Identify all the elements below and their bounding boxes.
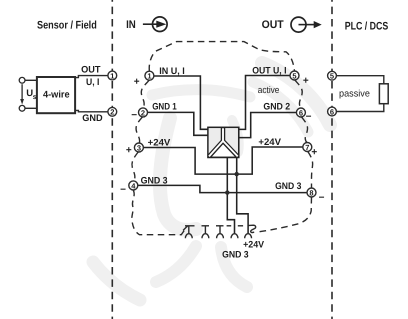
4-wire box [37,77,75,113]
connector 3 [217,226,224,238]
wire GND 2 [239,113,297,138]
terminal D5 [328,71,337,80]
svg-text:GND 3: GND 3 [141,176,168,187]
svg-text:6: 6 [299,108,303,117]
terminal C7 [303,143,312,152]
wire GND 1 [147,112,208,135]
terminal D6 [328,107,337,116]
svg-text:+24V: +24V [258,137,281,148]
svg-text:3: 3 [137,143,141,152]
svg-text:5: 5 [292,71,296,80]
Us arrow [21,84,23,100]
svg-text:GND 1: GND 1 [152,101,177,112]
outline seg 3-4 [132,152,138,181]
connector 2 [202,226,209,238]
terminal C8 [307,188,316,197]
watermark logo (light gray) [93,63,330,300]
svg-text:IN U, I: IN U, I [159,66,185,77]
terminal A2 [108,107,117,116]
svg-text:active: active [258,85,280,96]
svg-text:U, I: U, I [86,77,99,88]
terminal B3 [134,143,143,152]
svg-text:−: − [120,184,126,195]
wire source to 4-wire box [25,79,37,81]
terminal B2 [139,108,148,117]
wire box to terminal 1 [75,76,108,78]
svg-text:GND 2: GND 2 [263,101,290,112]
svg-text:IN: IN [126,19,136,31]
svg-text:5: 5 [330,72,334,81]
svg-text:OUT: OUT [81,65,101,76]
svg-text:8: 8 [309,188,313,197]
svg-text:2: 2 [110,108,114,117]
wire IN U,I [154,76,208,129]
wire GND 3 net [138,185,307,192]
outline seg 2-3 [136,117,142,143]
svg-text:+: + [126,145,132,156]
svg-text:+24V: +24V [148,137,171,148]
terminal B4 [129,181,138,190]
svg-text:passive: passive [339,89,370,100]
right dashed separator [331,0,333,319]
outline curl end [248,225,256,232]
source terminal top [19,77,25,83]
junction +24V [235,172,239,176]
wire OUT U,I [239,76,290,130]
outline bottom bars (solid dashes at connector row) [185,225,256,232]
svg-text:OUT U, I: OUT U, I [252,65,286,76]
svg-text:GND 3: GND 3 [222,249,249,260]
wire GND3 leg [227,157,234,233]
svg-text:PLC / DCS: PLC / DCS [345,21,389,33]
terminal C6 [296,108,305,117]
outline seg 6-7 [302,117,308,143]
left dashed separator [111,0,113,319]
svg-text:GND 3: GND 3 [275,181,301,192]
svg-text:−: − [319,192,325,203]
svg-text:7: 7 [305,143,309,152]
connector 4 dome [231,234,238,238]
svg-text:−: − [131,110,137,121]
isolation box [208,127,239,157]
outline top [149,42,294,72]
connector 1 [183,226,192,238]
svg-text:−: − [306,111,312,122]
svg-text:OUT: OUT [262,19,284,31]
load resistor [336,76,388,112]
svg-text:s: s [33,94,37,101]
outline seg 5-6 [295,80,302,108]
wire +24V net [143,147,303,174]
svg-text:1: 1 [147,72,151,81]
bus connector symbols [183,226,251,238]
svg-text:2: 2 [141,108,145,117]
outline seg below 4 [132,190,188,235]
connector 5 dome [245,234,252,239]
wire box to terminal 2 [75,110,108,111]
svg-text:GND: GND [82,113,103,124]
terminal B1 [145,71,154,80]
outline seg 1-2 [141,80,149,108]
svg-text:+: + [303,75,309,86]
junction GND3 [225,190,229,194]
terminal C5 [290,71,299,80]
svg-text:1: 1 [110,71,114,80]
svg-text:+: + [311,147,317,158]
OUT flow icon [291,17,322,32]
isolation Y divider [209,127,238,156]
svg-text:6: 6 [330,107,334,116]
terminal A1 [108,71,117,80]
outline seg 7-8 [308,152,313,188]
svg-text:4-wire: 4-wire [43,89,70,100]
source terminal bottom [19,105,25,111]
outline bottom right sweep [258,197,312,232]
svg-text:+: + [134,76,140,87]
svg-text:Sensor / Field: Sensor / Field [37,20,97,32]
IN flow icon [143,17,167,32]
wire +24V leg [237,157,248,233]
